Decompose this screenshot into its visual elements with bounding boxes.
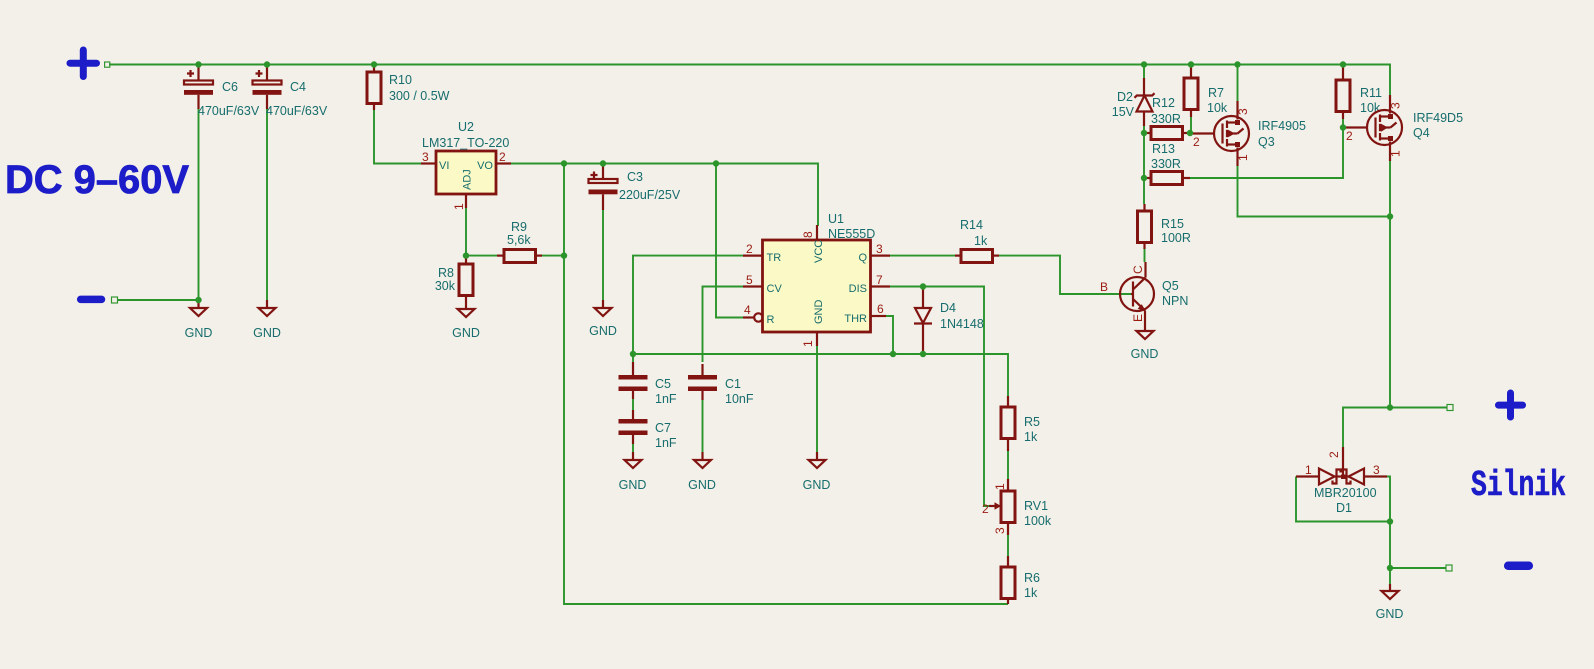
resistor R5: [1001, 396, 1040, 451]
capacitor C7: [619, 410, 677, 450]
svg-text:R13: R13: [1152, 142, 1175, 156]
svg-text:GND: GND: [803, 478, 831, 492]
svg-text:VCC: VCC: [813, 240, 825, 263]
capacitor C5: [619, 362, 677, 406]
wire R13 to Q4 gate node: [1190, 128, 1343, 179]
timer U1 NE555D: [743, 212, 890, 347]
wire R6 to bottom rail: [1007, 602, 1009, 604]
transistor Q5 NPN: [1100, 262, 1188, 324]
svg-text:GND: GND: [589, 324, 617, 338]
wire R14 to Q5 base: [999, 256, 1131, 294]
wire R11 drop: [1342, 65, 1344, 81]
wire D2 to R12 junction: [1143, 124, 1145, 204]
node junction zener R12: [1141, 130, 1147, 136]
svg-text:U1: U1: [828, 212, 844, 226]
node junction motor minus: [1387, 565, 1393, 571]
svg-text:B: B: [1100, 280, 1108, 294]
svg-text:10nF: 10nF: [725, 392, 754, 406]
label Silnik: [1471, 465, 1566, 506]
svg-text:Q: Q: [858, 252, 867, 264]
wire R5 chain: [1007, 450, 1009, 480]
node junction motor plus: [1387, 404, 1393, 410]
svg-text:GND: GND: [1131, 347, 1159, 361]
wire ADJ to R9: [466, 207, 498, 256]
resistor R6: [1001, 556, 1040, 604]
wire C3 drop: [602, 209, 604, 300]
svg-text:15V: 15V: [1112, 105, 1135, 119]
svg-text:1: 1: [1305, 463, 1312, 477]
svg-text:1k: 1k: [1024, 430, 1038, 444]
node junction C6 top: [195, 61, 201, 67]
svg-text:THR: THR: [844, 313, 867, 325]
svg-text:R6: R6: [1024, 571, 1040, 585]
svg-text:30k: 30k: [435, 279, 456, 293]
label minus input: [81, 296, 102, 304]
wire Q3 source to rail: [1237, 65, 1239, 103]
svg-text:MBR20100: MBR20100: [1314, 486, 1377, 500]
label plus output: [1499, 393, 1523, 417]
svg-text:330R: 330R: [1151, 157, 1181, 171]
resistor R9: [497, 220, 542, 263]
wire C4 drop: [266, 108, 268, 300]
svg-text:2: 2: [1193, 135, 1200, 149]
wire RV1 to R6: [1007, 534, 1009, 556]
zener D2 15V: [1112, 78, 1155, 126]
svg-text:R11: R11: [1360, 86, 1382, 100]
svg-text:1k: 1k: [1024, 586, 1038, 600]
svg-text:3: 3: [993, 527, 1007, 534]
svg-text:D1: D1: [1336, 501, 1352, 515]
svg-text:E: E: [1131, 314, 1145, 322]
svg-text:VI: VI: [439, 160, 449, 172]
svg-text:C5: C5: [655, 377, 671, 391]
svg-text:GND: GND: [1376, 607, 1404, 621]
svg-text:1: 1: [993, 483, 1007, 490]
capacitor C4: [253, 66, 328, 118]
node junction R7 top: [1188, 61, 1194, 67]
svg-text:Q4: Q4: [1413, 126, 1430, 140]
node junction ADJ R9 R8: [463, 252, 469, 258]
svg-text:CV: CV: [767, 283, 783, 295]
svg-text:2: 2: [746, 242, 753, 256]
node junction D2 top: [1141, 61, 1147, 67]
node - input terminal: [112, 297, 118, 303]
svg-text:GND: GND: [688, 478, 716, 492]
node junction R11 Q4 gate: [1340, 124, 1346, 130]
svg-text:R14: R14: [960, 218, 983, 232]
svg-text:IRF49D5: IRF49D5: [1413, 111, 1463, 125]
svg-text:2: 2: [1346, 129, 1353, 143]
label plus input: [70, 50, 97, 77]
ground under U1: [803, 452, 831, 492]
svg-text:3: 3: [1389, 102, 1403, 109]
svg-text:NPN: NPN: [1162, 294, 1188, 308]
svg-text:D2: D2: [1117, 90, 1133, 104]
wire C5 to C7: [632, 397, 634, 412]
node junction D1 bottom: [1387, 518, 1393, 524]
svg-text:Q5: Q5: [1162, 279, 1179, 293]
wire C5 link: [632, 354, 634, 364]
wire to motor minus: [1389, 522, 1391, 585]
potentiometer RV1: [982, 479, 1052, 535]
diode D4 1N4148: [914, 288, 984, 352]
svg-text:GND: GND: [253, 326, 281, 340]
wire R15 to Q5 collector: [1144, 249, 1146, 262]
transistor Q3 IRF4905 pmos: [1190, 101, 1306, 166]
svg-text:1nF: 1nF: [655, 392, 677, 406]
svg-text:C6: C6: [222, 80, 238, 94]
svg-text:ADJ: ADJ: [462, 169, 474, 190]
regulator U2 LM317: [421, 120, 511, 210]
svg-text:R12: R12: [1152, 96, 1175, 110]
svg-text:1: 1: [1389, 150, 1403, 157]
svg-text:C: C: [1131, 265, 1145, 274]
node junction R11 top: [1340, 61, 1346, 67]
node junction pin4 drop: [713, 160, 719, 166]
resistor R11: [1336, 65, 1382, 119]
svg-text:7: 7: [876, 273, 883, 287]
svg-text:5,6k: 5,6k: [507, 233, 531, 247]
node junction R9 x564: [561, 252, 567, 258]
wire Q3 drain down and right: [1238, 165, 1391, 217]
svg-text:R: R: [767, 314, 775, 326]
node motor + terminal: [1447, 405, 1453, 411]
svg-text:220uF/25V: 220uF/25V: [619, 188, 681, 202]
dual schottky D1 MBR20100: [1296, 447, 1387, 515]
svg-text:1: 1: [452, 203, 466, 210]
node junction Q3 Q4 drains: [1387, 213, 1393, 219]
svg-text:C4: C4: [290, 80, 306, 94]
svg-text:2: 2: [982, 502, 989, 516]
capacitor C1: [688, 364, 754, 406]
svg-text:IRF4905: IRF4905: [1258, 119, 1306, 133]
svg-text:1: 1: [801, 340, 815, 347]
wire minus rail: [118, 299, 199, 301]
svg-text:GND: GND: [185, 326, 213, 340]
svg-text:470uF/63V: 470uF/63V: [198, 104, 260, 118]
wire timing rail y354: [633, 354, 1008, 396]
svg-text:R15: R15: [1161, 217, 1184, 231]
svg-text:R7: R7: [1208, 86, 1224, 100]
wire DIS net to RV1 wiper: [886, 287, 989, 507]
wire R7 drop: [1190, 65, 1192, 79]
svg-text:TR: TR: [767, 252, 782, 264]
ground under Q5: [1131, 324, 1159, 361]
svg-text:2: 2: [499, 150, 506, 164]
svg-text:DIS: DIS: [849, 283, 867, 295]
svg-text:3: 3: [1373, 463, 1380, 477]
svg-text:Silnik: Silnik: [1471, 465, 1566, 506]
wire C1 to gnd: [702, 397, 704, 452]
node junction C4 top: [264, 61, 270, 67]
svg-text:1nF: 1nF: [655, 436, 677, 450]
wire ADJ node vertical x564: [564, 164, 1008, 605]
ground under C4: [253, 300, 281, 340]
svg-text:100R: 100R: [1161, 231, 1191, 245]
svg-text:300 / 0.5W: 300 / 0.5W: [389, 89, 450, 103]
svg-text:10k: 10k: [1207, 101, 1228, 115]
wire Q4 drain down to motor plus: [1389, 160, 1391, 408]
node junction R12 R7 gate: [1187, 130, 1193, 136]
wire TR net: [633, 256, 744, 354]
ground under R8: [452, 302, 480, 340]
svg-text:3: 3: [876, 242, 883, 256]
wire Q out to R14: [890, 255, 956, 257]
node junction C3 top: [600, 160, 606, 166]
svg-text:R5: R5: [1024, 415, 1040, 429]
svg-text:1k: 1k: [974, 234, 988, 248]
svg-text:U2: U2: [458, 120, 474, 134]
node motor - terminal: [1446, 565, 1452, 571]
svg-text:C1: C1: [725, 377, 741, 391]
svg-text:3: 3: [422, 150, 429, 164]
wire D1 pin1 loop: [1296, 477, 1390, 522]
resistor R8: [435, 257, 473, 302]
svg-text:330R: 330R: [1151, 112, 1181, 126]
svg-text:6: 6: [877, 302, 884, 316]
node + input terminal: [105, 62, 110, 67]
svg-text:R9: R9: [511, 220, 527, 234]
capacitor C3: [589, 166, 681, 211]
wire C7 to gnd: [632, 441, 634, 452]
label minus output: [1508, 562, 1529, 571]
resistor R7: [1184, 65, 1228, 117]
node junction DIS D4: [920, 283, 926, 289]
resistor R10: [367, 65, 450, 110]
wire R11 to gate junction: [1342, 112, 1344, 128]
svg-text:470uF/63V: 470uF/63V: [266, 104, 328, 118]
svg-text:Q3: Q3: [1258, 135, 1275, 149]
wire R9 to x564: [540, 255, 564, 257]
svg-text:D4: D4: [940, 301, 956, 315]
node junction VO x564: [561, 160, 567, 166]
wire R7 to gate junction: [1190, 116, 1192, 133]
wire CV net: [703, 287, 745, 363]
svg-text:1: 1: [1236, 154, 1250, 161]
svg-text:R10: R10: [389, 73, 412, 87]
wire VCC to pin4 R: [716, 164, 744, 318]
svg-text:VO: VO: [477, 160, 493, 172]
resistor R15: [1138, 204, 1191, 249]
label DC 9-60V: [5, 158, 189, 202]
wire top V+ rail: [109, 65, 1390, 97]
ground under C7: [619, 452, 647, 492]
resistor R12: [1144, 96, 1190, 140]
svg-text:2: 2: [1327, 451, 1341, 458]
wire D1 pin3 to junction: [1387, 477, 1390, 522]
svg-text:GND: GND: [619, 478, 647, 492]
node junction R10 top: [371, 61, 377, 67]
node junction THR rail: [890, 351, 896, 357]
wire motor minus to terminal: [1390, 567, 1446, 569]
ground under C6: [185, 300, 213, 340]
wire U1 gnd pin: [816, 345, 818, 452]
wire motor plus to D1 pin2: [1343, 408, 1390, 449]
svg-text:GND: GND: [452, 326, 480, 340]
svg-text:10k: 10k: [1360, 101, 1381, 115]
capacitor C6: [184, 66, 260, 118]
resistor R13: [1144, 142, 1190, 185]
transistor Q4 IRF49D5 pmos: [1343, 95, 1463, 161]
wire D2 R12 R15 node x1144: [1143, 65, 1145, 80]
svg-text:8: 8: [801, 231, 815, 238]
svg-text:4: 4: [744, 303, 751, 317]
svg-text:C7: C7: [655, 421, 671, 435]
svg-text:RV1: RV1: [1024, 499, 1048, 513]
wire THR to rail: [886, 316, 893, 354]
node junction R13 node: [1141, 175, 1147, 181]
node junction Q3 source rail: [1234, 61, 1240, 67]
wire motor plus to terminal: [1390, 407, 1447, 409]
ground under C3: [589, 300, 617, 338]
ground under C1: [688, 452, 716, 492]
resistor R14: [955, 218, 999, 263]
svg-text:C3: C3: [627, 170, 643, 184]
node junction minus C6: [195, 297, 201, 303]
svg-text:5: 5: [746, 273, 753, 287]
svg-text:100k: 100k: [1024, 514, 1052, 528]
svg-text:LM317_TO-220: LM317_TO-220: [422, 136, 509, 150]
svg-text:3: 3: [1236, 108, 1250, 115]
node junction D4 rail: [920, 351, 926, 357]
svg-text:1N4148: 1N4148: [940, 317, 984, 331]
svg-text:DC 9–60V: DC 9–60V: [5, 158, 189, 202]
wire C6 drop: [198, 108, 200, 300]
wire R10 to U2 VI: [374, 109, 422, 164]
wire U2 VO rail to U1 VCC: [510, 164, 818, 227]
node junction TR C5 rail: [630, 351, 636, 357]
svg-text:R8: R8: [438, 266, 454, 280]
ground at motor minus: [1376, 584, 1404, 621]
svg-text:GND: GND: [813, 300, 825, 325]
